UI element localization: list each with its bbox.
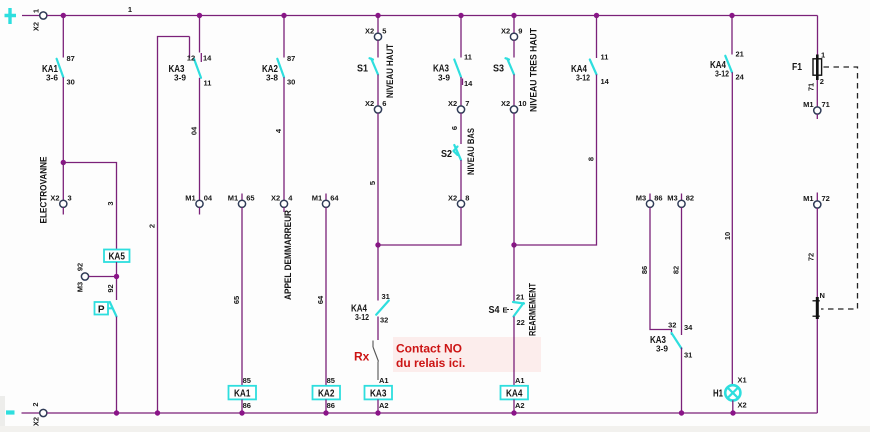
fuse F1 — [792, 51, 825, 87]
svg-text:P: P — [98, 304, 105, 315]
wire — [377, 40, 379, 57]
switch S1 (NO, niveau haut) — [357, 58, 378, 74]
svg-text:X2: X2 — [501, 27, 510, 36]
svg-text:KA2: KA2 — [318, 389, 335, 400]
left-bottom grey edge — [0, 396, 5, 426]
svg-text:92: 92 — [75, 263, 84, 271]
wire — [377, 245, 379, 301]
contact KA2 3-8 (NO) — [262, 54, 295, 87]
svg-text:KA4: KA4 — [506, 389, 523, 400]
svg-text:34: 34 — [684, 323, 693, 332]
terminal M3:92 — [75, 263, 116, 292]
wire — [816, 80, 818, 107]
node rail-P junction — [114, 410, 119, 415]
wire — [377, 317, 379, 341]
svg-text:M1: M1 — [803, 100, 813, 109]
terminal X2:2 — [22, 402, 47, 426]
svg-text:X1: X1 — [738, 376, 747, 385]
node junction — [375, 242, 380, 247]
wire — [513, 245, 515, 301]
svg-text:3-12: 3-12 — [355, 313, 369, 322]
svg-text:11: 11 — [601, 53, 609, 62]
wire — [513, 317, 515, 386]
wire — [816, 208, 818, 297]
svg-text:3-12: 3-12 — [715, 70, 729, 79]
svg-text:du relais ici.: du relais ici. — [396, 356, 465, 370]
svg-text:2: 2 — [820, 77, 824, 86]
svg-text:92: 92 — [106, 284, 115, 292]
wire — [816, 319, 818, 413]
svg-text:1: 1 — [128, 5, 132, 14]
wire — [241, 207, 243, 385]
terminal M1:72 — [803, 193, 830, 209]
svg-text:21: 21 — [736, 50, 744, 59]
svg-text:3-12: 3-12 — [576, 74, 590, 83]
terminal X2:9 — [501, 27, 522, 41]
svg-text:X2: X2 — [738, 401, 747, 410]
wire to X2:3 — [62, 163, 64, 201]
wire 82 — [681, 207, 683, 335]
svg-text:A1: A1 — [379, 376, 389, 385]
wire — [377, 399, 379, 413]
svg-text:71: 71 — [806, 83, 815, 91]
contact KA3 3-9 (pins 12 14 11) — [169, 37, 213, 88]
terminal M3:86 — [636, 194, 663, 208]
wire — [514, 75, 597, 246]
svg-text:10: 10 — [723, 232, 732, 240]
svg-text:Contact NO: Contact NO — [396, 342, 462, 356]
node rail-KA1 junction — [61, 13, 66, 18]
wire — [377, 16, 379, 34]
svg-text:S2: S2 — [441, 149, 452, 160]
svg-text:APPEL DEMMARREUR: APPEL DEMMARREUR — [283, 210, 293, 300]
wire — [513, 40, 515, 57]
relay coil KA5 — [104, 250, 130, 263]
wire — [63, 163, 116, 250]
switch S4 (NC, rearmement) — [489, 293, 525, 328]
svg-text:S3: S3 — [493, 64, 504, 75]
svg-text:M3: M3 — [636, 194, 646, 203]
node junction — [61, 160, 66, 165]
wire — [283, 16, 285, 58]
svg-text:2: 2 — [31, 402, 40, 406]
svg-text:30: 30 — [287, 78, 295, 87]
svg-text:X2: X2 — [501, 99, 510, 108]
svg-text:65: 65 — [246, 194, 254, 203]
wire 2 — [158, 37, 190, 414]
wire — [731, 16, 733, 55]
node rail-H1 junction — [730, 410, 735, 415]
svg-text:82: 82 — [671, 266, 680, 274]
svg-text:7: 7 — [465, 99, 469, 108]
svg-text:3-9: 3-9 — [174, 74, 187, 83]
contact KA3 3-9 (pins 11/14) — [433, 53, 473, 89]
svg-text:X2: X2 — [365, 27, 374, 36]
svg-text:10: 10 — [518, 99, 526, 108]
terminal X2:6 — [365, 99, 386, 113]
wire — [731, 72, 733, 385]
contact KA3 3-9 (pins 32/34/31) — [650, 321, 693, 360]
wire — [513, 16, 515, 34]
wire — [377, 113, 379, 245]
node junction — [511, 242, 516, 247]
svg-text:X2: X2 — [271, 194, 280, 203]
terminal M1:04 — [185, 194, 213, 215]
terminal X2:10 — [501, 99, 527, 113]
svg-text:64: 64 — [316, 295, 325, 304]
svg-text:X2: X2 — [31, 417, 40, 426]
svg-text:14: 14 — [601, 77, 610, 86]
terminal M1:64 — [312, 194, 340, 208]
wire bottom rail — [47, 412, 817, 414]
terminal X2:3 — [50, 194, 71, 215]
terminal X2:4 — [271, 194, 293, 213]
bottom grey strip — [0, 426, 870, 432]
neutral link N — [813, 291, 825, 319]
wire — [241, 399, 243, 413]
svg-text:F1: F1 — [792, 62, 802, 73]
contact P (pressure switch) — [95, 302, 117, 317]
wire — [377, 75, 379, 106]
terminal X2:5 — [365, 27, 386, 41]
wire — [513, 399, 515, 413]
terminal M1:71 — [803, 100, 830, 119]
svg-text:31: 31 — [382, 292, 390, 301]
node junction — [114, 274, 119, 279]
wire — [732, 400, 734, 413]
svg-text:X2: X2 — [448, 99, 457, 108]
svg-text:8: 8 — [586, 157, 595, 161]
svg-text:KA1: KA1 — [234, 389, 251, 400]
svg-text:5: 5 — [368, 181, 377, 185]
svg-text:6: 6 — [382, 99, 386, 108]
svg-text:04: 04 — [189, 126, 198, 135]
node rail-wire2 junction — [155, 410, 160, 415]
svg-text:X2: X2 — [448, 194, 457, 203]
svg-text:21: 21 — [516, 293, 524, 302]
wire — [460, 113, 462, 144]
node rail-KA4b junction — [729, 13, 734, 18]
terminal X2:8 — [448, 194, 469, 208]
wire — [596, 16, 598, 59]
wire — [513, 75, 515, 106]
svg-text:3-9: 3-9 — [656, 345, 669, 354]
svg-text:86: 86 — [640, 266, 649, 274]
svg-text:E: E — [503, 306, 508, 315]
node rail-S1 junction — [375, 13, 380, 18]
svg-text:04: 04 — [204, 194, 213, 203]
node rail-KA2 junction — [281, 13, 286, 18]
contact KA4 3-12 (pins 11/14) — [571, 53, 610, 87]
svg-text:3-6: 3-6 — [46, 74, 59, 83]
contact KA4 3-12 (pins 21/24) — [710, 50, 745, 82]
svg-text:5: 5 — [382, 27, 386, 36]
plus symbol (+ supply) — [5, 8, 17, 24]
wire — [62, 16, 64, 58]
svg-text:72: 72 — [806, 253, 815, 261]
svg-text:3: 3 — [106, 201, 115, 205]
node rail-S3 junction — [511, 13, 516, 18]
terminal X2:7 — [448, 99, 469, 113]
svg-text:1: 1 — [31, 9, 40, 13]
wire — [325, 399, 327, 413]
svg-text:22: 22 — [517, 318, 525, 327]
svg-text:A2: A2 — [515, 401, 525, 410]
svg-text:85: 85 — [327, 376, 335, 385]
svg-text:H1: H1 — [713, 389, 723, 400]
svg-text:14: 14 — [464, 79, 473, 88]
wire to junction — [378, 207, 461, 245]
svg-text:11: 11 — [204, 79, 212, 88]
svg-text:86: 86 — [243, 401, 251, 410]
wire — [199, 16, 201, 53]
wire 86 — [650, 207, 672, 335]
svg-text:65: 65 — [232, 296, 241, 304]
svg-text:11: 11 — [464, 53, 472, 62]
svg-text:M1: M1 — [312, 194, 322, 203]
svg-text:X2: X2 — [50, 194, 59, 203]
lamp H1 — [713, 376, 747, 410]
svg-text:31: 31 — [684, 351, 692, 360]
svg-text:86: 86 — [654, 194, 662, 203]
contact Rx (grey NO contact) — [373, 341, 379, 381]
node rail-KA4coil junction — [511, 410, 516, 415]
svg-text:64: 64 — [330, 194, 339, 203]
svg-text:72: 72 — [822, 194, 830, 203]
relay coil KA2 — [313, 376, 341, 410]
svg-text:32: 32 — [380, 316, 388, 325]
svg-text:2: 2 — [147, 224, 156, 228]
switch S3 (NO, niveau tres haut) — [493, 58, 514, 74]
svg-text:3: 3 — [68, 194, 72, 203]
node rail-KA3b junction — [679, 410, 684, 415]
svg-text:24: 24 — [736, 73, 745, 82]
relay coil KA1 — [229, 376, 257, 410]
relay coil KA3 — [365, 376, 393, 410]
wire — [325, 207, 327, 385]
wire — [513, 113, 515, 245]
svg-text:Rx: Rx — [354, 350, 370, 364]
node rail-KA1coil junction — [239, 410, 244, 415]
svg-text:X2: X2 — [31, 22, 40, 31]
svg-text:14: 14 — [203, 54, 212, 63]
svg-text:32: 32 — [668, 321, 676, 330]
svg-text:S4: S4 — [489, 305, 500, 316]
svg-text:M1: M1 — [185, 194, 195, 203]
svg-text:KA3: KA3 — [370, 389, 387, 400]
svg-text:9: 9 — [518, 27, 522, 36]
svg-text:NIVEAU HAUT: NIVEAU HAUT — [385, 44, 395, 98]
wire — [460, 16, 462, 58]
wire — [460, 160, 462, 200]
svg-text:REARMEMENT: REARMEMENT — [527, 283, 537, 336]
svg-text:71: 71 — [822, 100, 830, 109]
wire — [116, 317, 118, 414]
wire — [681, 348, 683, 414]
terminal X2:1 — [22, 9, 47, 31]
terminal M3:82 — [667, 194, 694, 208]
svg-text:3-9: 3-9 — [438, 74, 451, 83]
svg-text:86: 86 — [327, 401, 335, 410]
svg-text:82: 82 — [686, 194, 694, 203]
svg-text:KA5: KA5 — [108, 252, 125, 263]
wire — [283, 77, 285, 200]
svg-text:S1: S1 — [357, 64, 368, 75]
switch S2 (niveau bas) — [441, 145, 461, 160]
svg-text:A2: A2 — [379, 401, 389, 410]
svg-text:X2: X2 — [365, 99, 374, 108]
contact KA1 3-6 (NO) — [42, 54, 75, 87]
light pink note background — [393, 337, 541, 372]
wire — [116, 262, 118, 300]
wire — [199, 78, 201, 200]
svg-text:87: 87 — [67, 54, 75, 63]
wire — [460, 77, 462, 106]
svg-text:30: 30 — [67, 78, 75, 87]
svg-text:NIVEAU BAS: NIVEAU BAS — [466, 128, 476, 175]
svg-text:85: 85 — [243, 376, 251, 385]
svg-text:6: 6 — [450, 126, 459, 130]
wire — [817, 16, 819, 56]
svg-text:M1: M1 — [803, 194, 813, 203]
wire — [62, 77, 64, 162]
relay coil KA4 — [501, 376, 529, 410]
svg-text:A1: A1 — [515, 376, 525, 385]
svg-text:12: 12 — [187, 54, 195, 63]
node rail-KA3coil junction — [375, 410, 380, 415]
wire top rail — [47, 15, 818, 17]
node rail-KA4 junction — [594, 13, 599, 18]
svg-text:87: 87 — [287, 54, 295, 63]
minus symbol (- supply) — [6, 410, 15, 414]
node rail-KA3mid junction — [458, 13, 463, 18]
dashed link F1 to N — [821, 67, 858, 309]
svg-text:NIVEAU TRES HAUT: NIVEAU TRES HAUT — [528, 28, 538, 112]
svg-text:N: N — [820, 291, 825, 300]
svg-text:8: 8 — [465, 194, 469, 203]
svg-text:ELECTROVANNE: ELECTROVANNE — [38, 157, 48, 224]
svg-text:M3: M3 — [75, 282, 84, 292]
contact KA4 3-12 (NO pins 31/32) — [351, 292, 390, 325]
svg-text:M1: M1 — [228, 194, 238, 203]
node rail-KA3 junction — [197, 13, 202, 18]
svg-text:3-8: 3-8 — [266, 74, 279, 83]
node rail-KA2coil junction — [323, 410, 328, 415]
svg-text:M3: M3 — [667, 194, 677, 203]
terminal M1:65 — [228, 194, 255, 208]
